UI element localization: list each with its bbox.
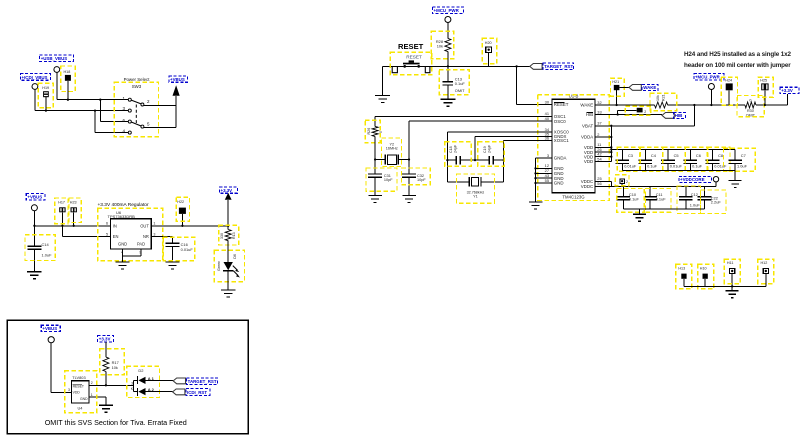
capacitor C11 lower stub xyxy=(649,200,651,209)
wire H13 stub xyxy=(683,279,685,287)
header H12 xyxy=(763,268,768,273)
wire VBAT net xyxy=(595,125,694,127)
node TARGET_RST label xyxy=(543,63,574,70)
power +VBUS arrow xyxy=(173,85,180,96)
capacitor C5 lower stub xyxy=(667,164,669,171)
svg-text:24pF: 24pF xyxy=(453,144,457,153)
switch SW3 arm 6-5 xyxy=(131,122,141,126)
capacitor C8 lower stub xyxy=(712,164,714,171)
junction pin6 branch xyxy=(99,99,101,101)
svg-text:H11: H11 xyxy=(727,261,734,265)
switch SW3 contact 2 xyxy=(141,103,144,106)
svg-text:HIB: HIB xyxy=(675,113,683,118)
junction GND bus xyxy=(534,167,536,169)
wire to +VBUS arrow xyxy=(175,96,177,106)
svg-text:C4: C4 xyxy=(651,153,657,158)
svg-text:OMIT: OMIT xyxy=(455,88,465,93)
crystal Y2 box xyxy=(382,138,402,167)
svg-text:C3: C3 xyxy=(628,153,633,158)
svg-text:H25: H25 xyxy=(760,79,767,83)
capacitor C7 stub xyxy=(734,150,736,161)
svg-text:0.1uF: 0.1uF xyxy=(647,163,658,168)
svg-text:TARGET_RST: TARGET_RST xyxy=(188,379,217,384)
wire GND/PAD stubs xyxy=(122,249,124,256)
capacitor C4 xyxy=(639,159,653,161)
wire SW3 pin5 out xyxy=(144,127,176,129)
svg-text:2: 2 xyxy=(147,99,150,104)
svg-text:C31: C31 xyxy=(384,174,391,178)
junction VDD bus top xyxy=(610,125,612,127)
node +MCU_PWR label (reset) xyxy=(432,7,463,14)
svg-text:330: 330 xyxy=(220,233,224,239)
svg-text:C6: C6 xyxy=(696,153,701,158)
switch SW3 contact 6 xyxy=(128,120,131,123)
wire GNDX net xyxy=(475,136,552,138)
svg-text:1: 1 xyxy=(91,393,93,397)
capacitor C6 stub xyxy=(689,150,691,161)
junction MCU_PWR/rail xyxy=(710,104,712,106)
node +3.3V label (rail) xyxy=(780,87,799,93)
capacitor C31 xyxy=(368,173,382,175)
switch SW3 contact 1 xyxy=(128,98,131,101)
wire H25 stub xyxy=(764,90,766,105)
wire D2b to ICDI_RST xyxy=(146,391,173,393)
svg-text:1.0uF: 1.0uF xyxy=(42,252,53,257)
svg-text:C8: C8 xyxy=(718,153,723,158)
header H25 box xyxy=(758,77,773,97)
junction HIB stub xyxy=(617,113,619,115)
wire XOSC0 net xyxy=(447,131,552,133)
capacitor C14 stub xyxy=(33,226,35,246)
junction H19/ICDI xyxy=(45,109,47,111)
wire VDD caps bottom rail xyxy=(622,170,735,172)
wire H20 stub xyxy=(488,53,490,67)
svg-text:+VBUS: +VBUS xyxy=(170,77,185,82)
svg-text:C12: C12 xyxy=(691,192,698,197)
svg-text:H10: H10 xyxy=(700,266,707,270)
node +3.3V label (regulator) xyxy=(219,187,237,193)
power +3.3V arrow (regulator) xyxy=(225,193,232,200)
wire reset to pin30 xyxy=(516,66,518,104)
svg-text:C18: C18 xyxy=(449,146,453,153)
node +MCU_PWR terminal (rail) xyxy=(708,84,714,90)
node TARGET_RST flag xyxy=(530,64,542,70)
capacitor C14 box xyxy=(25,235,55,261)
pushbutton leg left xyxy=(392,66,397,72)
capacitor C5 xyxy=(661,159,675,161)
wire IN net xyxy=(34,225,110,227)
wire C16 to ground xyxy=(171,247,173,263)
svg-text:10k: 10k xyxy=(656,95,660,101)
wire C7 to ground xyxy=(734,171,736,181)
svg-text:+VBUS: +VBUS xyxy=(27,195,42,200)
capacitor C11 stub xyxy=(649,186,651,196)
wire OSC0 net xyxy=(409,120,552,122)
capacitor C19 box xyxy=(478,142,504,167)
wire D2a to TARGET_RST xyxy=(146,379,174,381)
wire branch to SW3 pin4 xyxy=(94,111,96,133)
capacitor C7 xyxy=(728,159,742,161)
svg-text:+VBUS: +VBUS xyxy=(42,326,57,331)
header H21 xyxy=(614,85,620,90)
svg-text:10pF: 10pF xyxy=(417,178,426,182)
wire reset net xyxy=(383,65,530,67)
wire H10 stub xyxy=(704,279,706,287)
header H17 xyxy=(59,207,65,212)
svg-text:U4: U4 xyxy=(78,406,84,411)
junction C14 xyxy=(33,225,35,227)
capacitor C5 stub xyxy=(667,150,669,161)
wire VDDC ground stem xyxy=(639,209,641,214)
node ICDI_RST flag xyxy=(173,389,185,395)
capacitor C10 box xyxy=(617,189,645,213)
wire R17 down xyxy=(105,372,107,386)
resistor R13 xyxy=(225,230,231,241)
svg-text:6: 6 xyxy=(106,222,108,226)
switch SW3 arm 1-2 xyxy=(131,100,141,104)
capacitor C18 xyxy=(447,159,456,161)
led D6 xyxy=(224,262,233,270)
capacitor C10 xyxy=(617,196,631,198)
svg-text:H23: H23 xyxy=(70,201,77,205)
led D6 box xyxy=(214,250,244,281)
resistor R17 xyxy=(103,357,109,371)
svg-text:RESET: RESET xyxy=(406,54,422,59)
junction pin4 branch xyxy=(94,109,96,111)
wire to +3.3V arrow xyxy=(227,200,229,226)
wire HIB header stub xyxy=(617,110,619,114)
svg-text:0.1uF: 0.1uF xyxy=(656,197,667,202)
node +3.3V label (SVS) xyxy=(98,336,114,342)
header H18 box xyxy=(61,66,75,92)
wire branch to SW3 pin6 xyxy=(99,100,101,122)
wire C32 to ground xyxy=(408,177,410,195)
capacitor C8 stub xyxy=(712,150,714,161)
svg-text:TPS73633DRB: TPS73633DRB xyxy=(108,214,136,219)
ground (C13) xyxy=(440,98,455,100)
ground (headers) xyxy=(726,290,739,292)
wire VDDC rail xyxy=(611,185,716,187)
svg-text:+3.3V 400mA Regulator: +3.3V 400mA Regulator xyxy=(98,202,149,208)
svg-text:EN: EN xyxy=(113,234,119,239)
svg-text:+VDDCORE: +VDDCORE xyxy=(680,177,705,182)
resistor R30 xyxy=(745,102,756,108)
capacitor C12 xyxy=(679,196,693,198)
svg-text:D6: D6 xyxy=(233,254,237,259)
svg-text:37: 37 xyxy=(597,121,601,126)
wire H17 stub xyxy=(61,212,63,226)
svg-text:C19: C19 xyxy=(483,146,487,153)
wire C31 to ground xyxy=(374,177,376,195)
svg-text:+MCU_PWR: +MCU_PWR xyxy=(434,8,460,13)
svg-text:3: 3 xyxy=(153,232,155,236)
junction H24/rail xyxy=(728,104,730,106)
svg-text:R13: R13 xyxy=(232,232,236,239)
wire LED to ground xyxy=(227,271,229,291)
capacitor C22 box xyxy=(701,190,727,214)
wire WAKE/MCU_PWR rail xyxy=(595,104,654,106)
svg-text:3: 3 xyxy=(68,388,70,392)
capacitor C13 stub xyxy=(447,66,449,81)
capacitor C7 lower stub xyxy=(734,164,736,171)
svg-text:header on 100 mil center with: header on 100 mil center with jumper xyxy=(684,62,791,69)
wire H23 stub xyxy=(73,212,75,226)
pushbutton leg right xyxy=(425,66,430,72)
node +VBUS label xyxy=(169,76,188,82)
junction Y2 right xyxy=(408,158,410,160)
node +VBUS terminal (regulator) xyxy=(31,205,37,211)
svg-text:GND: GND xyxy=(80,397,88,401)
header H21 box xyxy=(611,78,625,96)
svg-text:0: 0 xyxy=(379,131,383,133)
svg-text:H17: H17 xyxy=(58,201,65,205)
header H7 stub xyxy=(621,183,623,186)
junction ground rail xyxy=(731,285,733,287)
capacitor C3 box xyxy=(617,147,640,171)
wire +USB_VBUS vertical xyxy=(56,72,58,99)
switch SW3 contact 5 xyxy=(141,125,144,128)
junction H21/rail xyxy=(615,104,617,106)
capacitor C32 xyxy=(402,173,416,175)
svg-text:NR: NR xyxy=(143,234,149,239)
ground (C31) xyxy=(368,194,382,196)
node +USB_VBUS terminal xyxy=(54,67,60,73)
junction H25/rail xyxy=(764,104,766,106)
svg-text:H18: H18 xyxy=(64,70,71,74)
capacitor C22 stub xyxy=(704,186,706,196)
svg-text:IN: IN xyxy=(113,223,117,228)
svg-text:HIB: HIB xyxy=(586,112,593,117)
node +VBUS label (regulator) xyxy=(26,194,45,200)
node TARGET_RST label (SVS) xyxy=(186,378,217,385)
svg-text:Power Select: Power Select xyxy=(124,77,151,82)
switch SW3 mechanical link xyxy=(135,105,137,124)
svg-text:10pF: 10pF xyxy=(384,178,393,182)
svg-text:0.1uF: 0.1uF xyxy=(692,163,703,168)
svg-text:VDDC: VDDC xyxy=(581,184,593,189)
wire GND pins bus xyxy=(536,167,552,169)
header H2 (HIB) xyxy=(637,108,643,113)
svg-text:H13: H13 xyxy=(678,266,685,270)
capacitor C3 lower stub xyxy=(621,164,623,171)
svg-text:1.0uF: 1.0uF xyxy=(690,203,701,208)
wire R28 to reset net xyxy=(447,52,449,67)
ground (VDD caps) xyxy=(729,179,742,181)
wire H19 stub xyxy=(45,97,47,110)
diode D2a xyxy=(138,377,145,384)
header H10 xyxy=(703,274,708,279)
svg-text:XOSC1: XOSC1 xyxy=(554,138,569,143)
svg-text:0.01uF: 0.01uF xyxy=(624,163,637,168)
header H24 box xyxy=(721,77,737,105)
svg-text:1.0uF: 1.0uF xyxy=(737,163,748,168)
wire to ground (button) xyxy=(382,66,384,95)
svg-text:Green: Green xyxy=(217,261,221,271)
header H23 xyxy=(71,207,77,212)
svg-text:D2: D2 xyxy=(138,368,144,373)
svg-text:VDDA: VDDA xyxy=(581,135,593,140)
wire H21 stub xyxy=(616,90,618,105)
svg-text:C32: C32 xyxy=(417,174,424,178)
svg-text:C7: C7 xyxy=(741,153,746,158)
op chip U6 outline xyxy=(111,219,152,249)
led D6 arrows xyxy=(233,266,238,271)
capacitor C31 stub xyxy=(374,160,376,175)
capacitor C12 lower stub xyxy=(685,200,687,209)
capacitor C16 box xyxy=(163,237,195,261)
wire U4 pin2 out xyxy=(89,384,133,386)
svg-text:32: 32 xyxy=(597,100,601,105)
capacitor C12 stub xyxy=(685,186,687,196)
diode D2b cathode bar xyxy=(137,388,139,396)
svg-text:R21: R21 xyxy=(662,94,666,101)
resistor R26 box xyxy=(365,120,380,143)
resistor R13 box xyxy=(219,225,239,245)
svg-text:GND: GND xyxy=(554,181,564,186)
chip U1-B box xyxy=(538,95,610,201)
capacitor C13 box xyxy=(439,70,469,95)
node +MCU_PWR terminal (reset) xyxy=(445,17,451,23)
junction H23 xyxy=(73,225,75,227)
header H12 box xyxy=(758,259,774,284)
svg-text:+3.3V: +3.3V xyxy=(99,337,111,342)
wire ICDI_VBUS to SW3 pin3 xyxy=(35,110,128,112)
switch SW3 contact 3 xyxy=(128,109,131,112)
diode D2b xyxy=(138,388,145,395)
svg-text:SW3: SW3 xyxy=(132,84,142,89)
header H25 xyxy=(761,83,768,90)
svg-text:10k: 10k xyxy=(437,43,443,48)
wire EN net xyxy=(61,226,63,237)
wire OUT net xyxy=(151,225,228,227)
header H13 box xyxy=(676,264,692,289)
wire OUT to R13 xyxy=(227,226,229,230)
wire C14 to ground xyxy=(33,249,35,271)
capacitor C12 box xyxy=(677,186,701,214)
ground (MCU GND) xyxy=(529,201,543,203)
svg-text:VBAT: VBAT xyxy=(582,124,593,129)
crystal Y2 xyxy=(375,159,385,161)
junction XOSC1/C19 xyxy=(503,159,505,161)
header H11 box xyxy=(724,259,740,284)
header H11 xyxy=(730,268,735,273)
svg-text:2: 2 xyxy=(644,110,646,114)
svg-text:5: 5 xyxy=(147,122,150,127)
header H24 xyxy=(726,83,733,90)
junction R28/reset xyxy=(447,65,449,67)
svg-text:H21: H21 xyxy=(612,80,619,84)
wire ground headers rail xyxy=(684,285,766,287)
svg-text:RESET: RESET xyxy=(73,384,84,388)
junction reset/mcu xyxy=(515,65,517,67)
svg-text:0.01uF: 0.01uF xyxy=(670,163,683,168)
capacitor C4 stub xyxy=(644,150,646,161)
capacitor C31 box xyxy=(366,168,397,191)
header H10 box xyxy=(698,264,714,289)
junction Y2 left xyxy=(374,158,376,160)
wire VDDC caps bottom rail xyxy=(623,208,704,210)
switch SW3 box xyxy=(114,82,158,137)
resistor R30 box xyxy=(737,96,764,117)
junction VBAT/rail xyxy=(693,104,695,106)
junction R17/reset xyxy=(105,384,107,386)
node +VBUS label (SVS) xyxy=(41,325,60,331)
svg-text:2: 2 xyxy=(91,381,93,385)
svg-text:0.01uF: 0.01uF xyxy=(181,247,194,252)
svg-text:PAD: PAD xyxy=(137,242,145,247)
diode D2 box xyxy=(127,366,160,397)
svg-text:WAKE: WAKE xyxy=(580,103,593,108)
ground (VDDC caps) xyxy=(633,213,646,215)
svg-text:+3.3V: +3.3V xyxy=(781,88,793,93)
junction GNDX/caps xyxy=(474,159,476,161)
chip U4 box xyxy=(65,371,97,413)
svg-text:Y1: Y1 xyxy=(473,194,478,198)
svg-text:1: 1 xyxy=(153,222,155,226)
capacitor C4 lower stub xyxy=(644,164,646,171)
capacitor C4 box xyxy=(640,147,663,171)
svg-text:+3.3V: +3.3V xyxy=(221,188,233,193)
svg-text:VDD: VDD xyxy=(73,390,81,394)
capacitor C10 lower stub xyxy=(622,200,624,209)
node +VBUS terminal (SVS) xyxy=(48,337,54,343)
junction H18/USB xyxy=(67,99,69,101)
svg-text:TLV803: TLV803 xyxy=(72,375,85,380)
junction H22 xyxy=(181,225,183,227)
capacitor C5 box xyxy=(663,147,686,171)
header H17 box xyxy=(55,198,68,224)
svg-text:TM4C123G: TM4C123G xyxy=(562,194,585,199)
svg-text:+USB_VBUS: +USB_VBUS xyxy=(41,56,68,61)
wire OSC1 net xyxy=(375,115,552,117)
svg-text:H12: H12 xyxy=(761,261,768,265)
header H19 box xyxy=(38,83,53,108)
capacitor C8 box xyxy=(707,147,730,171)
wire VDDC stubs xyxy=(595,180,611,182)
header H22 xyxy=(179,208,186,214)
node HIB label xyxy=(674,113,686,119)
wire VBUS to U4 xyxy=(50,343,52,393)
wire USB_VBUS to SW3 pin1 xyxy=(57,99,128,101)
svg-text:RESET: RESET xyxy=(554,102,569,107)
crystal Y1 xyxy=(447,181,469,183)
wire H12 stub xyxy=(765,274,767,287)
wire C13 to ground xyxy=(447,85,449,99)
wire R26 to Y2 xyxy=(374,136,376,159)
wire VDD caps rail xyxy=(611,149,735,151)
capacitor C22 lower stub xyxy=(704,200,706,209)
capacitor C7 box xyxy=(724,148,756,171)
node +ICDI_VBUS label xyxy=(20,74,50,81)
capacitor C11 box xyxy=(646,189,672,213)
wire H18 stub xyxy=(67,81,69,100)
wire H22 stub xyxy=(181,214,183,226)
resistor R21 box xyxy=(650,93,677,110)
svg-text:24pF: 24pF xyxy=(487,144,491,153)
resistor R21 xyxy=(655,102,668,108)
node TARGET_RST flag (SVS) xyxy=(173,378,185,384)
header H13 xyxy=(681,274,686,279)
junction XOSC0/C18 xyxy=(446,159,448,161)
wire MCU_PWR to R28 xyxy=(447,23,449,39)
resistor R28 xyxy=(445,38,451,51)
svg-text:TARGET_RST: TARGET_RST xyxy=(544,64,573,69)
wire +ICDI_VBUS vertical xyxy=(34,89,36,110)
capacitor C6 box xyxy=(685,147,708,171)
header H23 box xyxy=(69,198,81,223)
node ICDI_RST label xyxy=(186,389,210,396)
svg-text:VDD: VDD xyxy=(584,159,593,164)
